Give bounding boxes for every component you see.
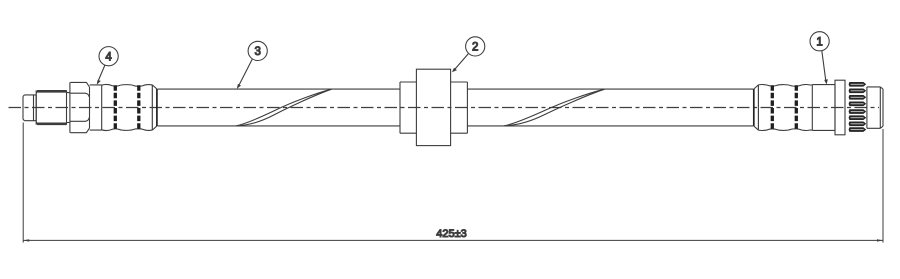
thread section [36,90,66,125]
hose right segment [467,89,753,126]
left ferrule crimped body [102,85,157,131]
dimension extension line right [882,129,884,243]
svg-text:4: 4 [105,51,112,63]
right fitting flange [835,80,845,135]
hose twist lay-line right [504,89,605,126]
right fitting body cylinder [812,85,835,131]
collar left ring [400,82,416,133]
svg-text:3: 3 [254,46,260,58]
collar right ring [451,82,468,133]
svg-text:2: 2 [472,42,478,54]
rib highlight stripes [851,84,864,129]
male fitting tip (left tube end) [23,95,36,121]
crimp bar 1 [114,85,117,130]
svg-text:1: 1 [816,37,822,49]
spline ribs [849,82,867,132]
crimp bar 2 [137,85,140,130]
callout circle 1 [810,32,829,85]
dimension extension line left [22,123,24,243]
callout circle 3 [237,41,268,89]
hose left segment [158,89,401,126]
centerline [9,107,880,109]
collar central block [416,69,450,145]
right ferrule crimped body [754,85,813,131]
crimp bar 3 [771,85,774,130]
dimension line 425±3 [23,239,883,241]
callout circle 4 [97,47,119,85]
crimp bar 4 [795,85,798,130]
neck between thread and hex [67,93,70,123]
left ferrule cap [90,85,102,130]
callout circle 2 [452,37,485,73]
hose twist lay-line left [236,89,332,126]
svg-text:425±3: 425±3 [436,228,467,240]
hex nut [70,82,90,132]
end cap [867,87,883,128]
